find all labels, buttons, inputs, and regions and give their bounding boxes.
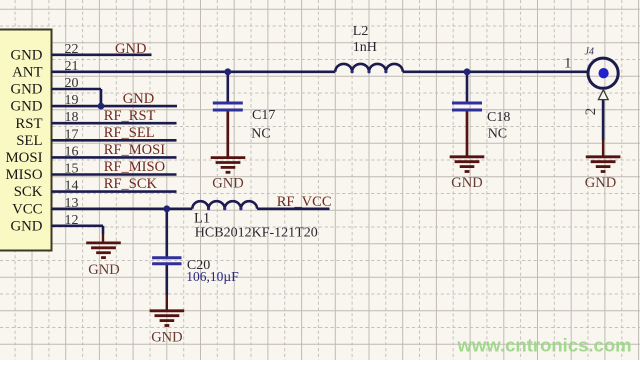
svg-text:RF_VCC: RF_VCC (277, 194, 332, 210)
svg-text:106,10µF: 106,10µF (186, 269, 239, 284)
svg-text:J4: J4 (585, 47, 594, 58)
svg-text:C17: C17 (252, 108, 275, 123)
svg-text:GND: GND (10, 99, 42, 115)
svg-text:GND: GND (10, 82, 42, 98)
svg-text:16: 16 (65, 144, 79, 159)
svg-text:18: 18 (65, 110, 79, 125)
svg-text:22: 22 (65, 42, 79, 57)
svg-text:C18: C18 (487, 110, 510, 125)
svg-text:MISO: MISO (6, 167, 43, 183)
svg-text:SCK: SCK (14, 184, 43, 200)
svg-text:MOSI: MOSI (6, 150, 43, 166)
svg-text:NC: NC (488, 127, 507, 142)
svg-text:RST: RST (15, 116, 42, 132)
svg-text:1nH: 1nH (353, 40, 377, 55)
svg-text:GND: GND (585, 175, 616, 191)
svg-text:SEL: SEL (16, 133, 42, 149)
svg-text:19: 19 (65, 93, 79, 108)
svg-text:1: 1 (564, 56, 572, 72)
svg-text:L2: L2 (353, 24, 369, 39)
svg-text:GND: GND (151, 330, 182, 346)
svg-text:15: 15 (65, 162, 79, 177)
svg-text:GND: GND (115, 41, 146, 57)
svg-text:2: 2 (583, 108, 599, 116)
svg-text:RF_SCK: RF_SCK (104, 176, 158, 192)
svg-text:VCC: VCC (12, 201, 43, 217)
svg-text:20: 20 (65, 76, 79, 91)
svg-text:GND: GND (88, 262, 119, 278)
svg-text:L1: L1 (194, 211, 210, 227)
svg-text:GND: GND (451, 175, 482, 191)
svg-text:RF_MISO: RF_MISO (104, 159, 165, 175)
svg-text:GND: GND (123, 91, 154, 107)
svg-text:HCB2012KF-121T20: HCB2012KF-121T20 (195, 225, 318, 240)
svg-text:14: 14 (65, 179, 79, 194)
svg-text:RF_RST: RF_RST (104, 108, 156, 124)
svg-text:GND: GND (212, 176, 243, 192)
svg-text:ANT: ANT (12, 64, 42, 80)
svg-text:RF_MOSI: RF_MOSI (104, 142, 165, 158)
svg-text:13: 13 (65, 196, 79, 211)
svg-text:12: 12 (65, 213, 79, 228)
svg-text:GND: GND (10, 218, 42, 234)
svg-text:21: 21 (65, 59, 79, 74)
svg-text:www.cntronics.com: www.cntronics.com (457, 335, 632, 356)
svg-text:RF_SEL: RF_SEL (104, 125, 155, 141)
svg-text:17: 17 (65, 127, 79, 142)
svg-text:GND: GND (10, 47, 42, 63)
svg-text:NC: NC (251, 127, 270, 142)
